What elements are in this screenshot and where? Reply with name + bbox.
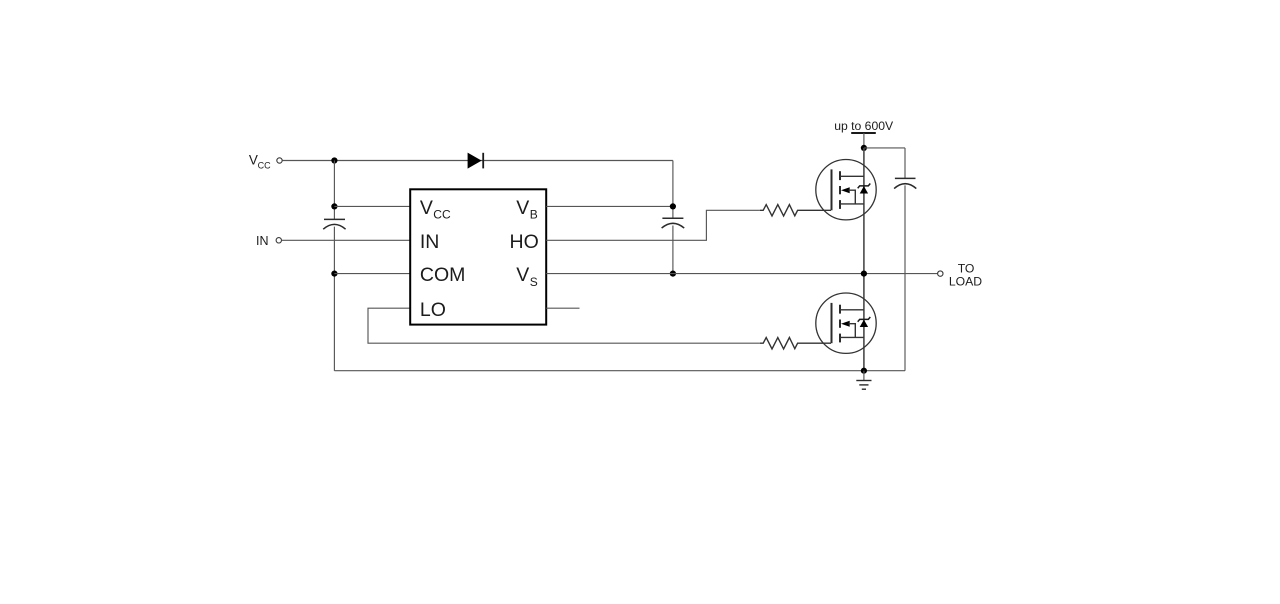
wire bootstrap vertical top	[672, 161, 674, 219]
svg-text:V: V	[249, 153, 258, 168]
junction VB	[670, 203, 676, 209]
wire LO path	[368, 308, 760, 343]
junction phase node	[861, 271, 867, 277]
node VCC terminal	[277, 158, 282, 163]
node TO LOAD label	[949, 262, 982, 289]
transistor Q1 high side MOSFET	[816, 160, 876, 220]
capacitor C1	[323, 219, 345, 229]
junction VCC/C1	[331, 157, 337, 163]
ground	[856, 371, 871, 390]
wire VS row	[546, 273, 937, 275]
capacitor C2 bootstrap	[662, 218, 685, 228]
svg-text:V: V	[516, 264, 529, 286]
wire C3 vertical bottom	[904, 185, 906, 370]
junction VS left	[670, 271, 676, 277]
svg-text:IN: IN	[420, 231, 440, 253]
wire bottom return	[334, 370, 905, 372]
resistor R2 low side gate	[760, 338, 831, 349]
svg-text:HO: HO	[510, 231, 539, 253]
wire supply drop	[863, 133, 865, 148]
wire LO stub right	[546, 307, 579, 309]
svg-text:COM: COM	[420, 264, 466, 286]
wire VB pin to bootstrap	[546, 205, 673, 207]
wire bootstrap vertical bottom	[672, 226, 674, 274]
wire left vertical upper segment	[333, 161, 335, 220]
svg-text:up to 600V: up to 600V	[834, 119, 894, 133]
svg-text:CC: CC	[433, 208, 451, 222]
svg-text:LOAD: LOAD	[949, 274, 982, 288]
op-amp U1 gate driver IC box	[410, 189, 546, 324]
svg-text:LO: LO	[420, 299, 446, 321]
node TO LOAD terminal	[938, 271, 943, 276]
transistor Q2 low side MOSFET	[816, 293, 876, 353]
diode D1	[468, 153, 484, 169]
junction VCC pin	[331, 203, 337, 209]
supply rail bar	[851, 132, 876, 134]
wire to COM pin	[334, 273, 410, 275]
wire to VCC pin	[334, 205, 410, 207]
wire left vertical lower segment	[333, 227, 335, 371]
svg-text:V: V	[516, 197, 529, 219]
svg-text:S: S	[530, 275, 538, 289]
junction bottom	[861, 368, 867, 374]
svg-text:V: V	[420, 197, 433, 219]
capacitor C3	[894, 178, 916, 188]
wire main vertical drain-source column	[863, 148, 865, 371]
junction supply	[861, 145, 867, 151]
svg-text:IN: IN	[256, 234, 269, 248]
wire supply to C3	[864, 147, 905, 149]
wire VCC rail horizontal	[282, 160, 673, 162]
svg-text:CC: CC	[258, 161, 271, 171]
junction COM	[331, 271, 337, 277]
resistor R1 high side gate	[760, 205, 831, 216]
wire HO path	[546, 210, 760, 240]
svg-text:B: B	[530, 208, 538, 222]
node IN terminal	[276, 238, 281, 243]
wire C3 vertical top	[904, 148, 906, 179]
wire IN to pin	[282, 239, 411, 241]
